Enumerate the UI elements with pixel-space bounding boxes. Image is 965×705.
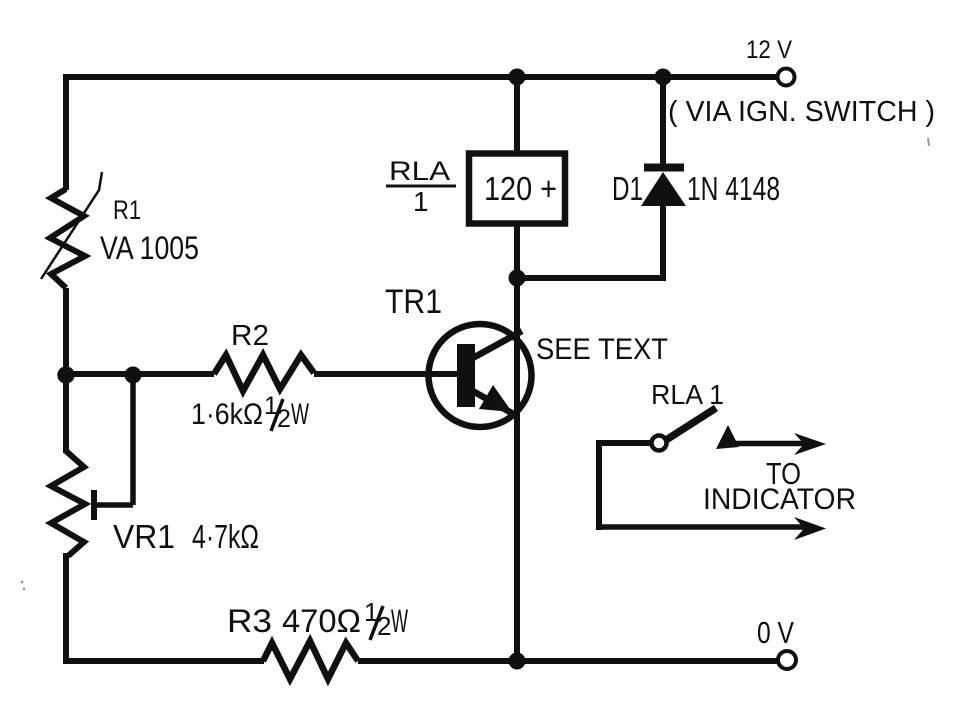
svg-text:R1: R1	[113, 195, 141, 225]
svg-text:W: W	[291, 398, 309, 431]
wire left rail upper	[63, 74, 69, 190]
contact blade	[666, 408, 716, 440]
svg-text:( VIA IGN. SWITCH ): ( VIA IGN. SWITCH )	[668, 96, 935, 128]
svg-text:0 V: 0 V	[757, 615, 794, 650]
svg-text:RLA 1: RLA 1	[651, 379, 724, 410]
svg-text:1N 4148: 1N 4148	[687, 170, 780, 207]
terminal 0V	[778, 651, 796, 669]
wire top supply rail	[63, 74, 778, 80]
collector diagonal	[471, 331, 522, 359]
emitter diagonal with arrow	[471, 390, 517, 416]
wire left rail middle	[63, 288, 69, 453]
resistor R3	[263, 641, 358, 679]
wire left rail lower	[63, 553, 69, 664]
wire bottom rail right	[358, 658, 778, 664]
resistor R2	[214, 355, 314, 391]
svg-text:SEE TEXT: SEE TEXT	[536, 333, 668, 366]
svg-text:12 V: 12 V	[746, 36, 792, 64]
transistor TR1	[429, 324, 532, 427]
svg-text:470Ω: 470Ω	[282, 603, 361, 639]
svg-text:TR1: TR1	[385, 283, 442, 321]
svg-text:R2: R2	[231, 320, 269, 352]
relay coil RLA/1 box	[469, 154, 565, 224]
node emitter bottom rail junction	[509, 653, 526, 670]
diode D1 1N4148	[644, 164, 684, 172]
node base junction wiper	[125, 367, 142, 384]
relay coil wire top	[514, 77, 520, 154]
wire collector node to diode	[517, 203, 663, 278]
wire base to transistor	[314, 371, 457, 377]
node top rail junction at relay	[509, 69, 526, 86]
wire bottom rail left	[63, 658, 264, 664]
contact pivot	[652, 436, 667, 451]
svg-text:RLA: RLA	[389, 156, 450, 186]
svg-text:4·7kΩ: 4·7kΩ	[192, 518, 259, 555]
relay coil wire bottom	[514, 223, 520, 278]
collector-emitter wire	[514, 278, 520, 664]
scan speck right margin	[928, 138, 929, 146]
node base junction left	[57, 366, 74, 383]
svg-text:1: 1	[413, 186, 429, 217]
svg-text:R3: R3	[227, 603, 272, 639]
terminal 12V	[778, 69, 795, 86]
diode D1 wire top	[660, 77, 666, 165]
svg-text:D1: D1	[612, 170, 643, 207]
svg-text:VR1: VR1	[113, 518, 175, 555]
svg-text:INDICATOR: INDICATOR	[703, 483, 856, 516]
arrow upper to indicator	[716, 425, 739, 449]
node collector junction	[509, 270, 526, 287]
svg-text:VA 1005: VA 1005	[100, 230, 199, 266]
svg-text:120 +: 120 +	[484, 170, 557, 207]
svg-text:1·6kΩ: 1·6kΩ	[191, 398, 263, 431]
svg-text:2: 2	[377, 611, 391, 641]
svg-text:2: 2	[277, 405, 291, 433]
resistor R1 (thermistor VA1005)	[50, 189, 85, 288]
arrow lower to indicator	[599, 524, 806, 530]
scan speck left margin	[21, 581, 24, 584]
svg-text:W: W	[391, 603, 408, 639]
potentiometer VR1	[51, 451, 85, 556]
wire base node horizontal	[66, 371, 214, 377]
contact left wire	[596, 440, 602, 530]
node top rail junction at diode	[655, 69, 672, 86]
